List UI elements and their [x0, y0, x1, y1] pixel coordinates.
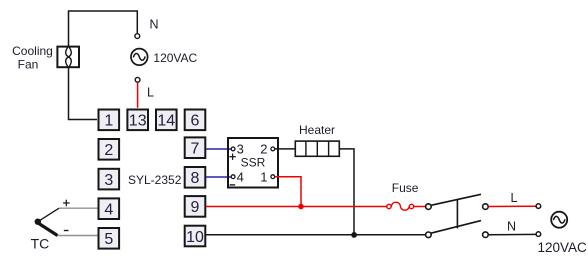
svg-text:4: 4: [237, 169, 244, 184]
svg-text:120VAC: 120VAC: [538, 240, 588, 255]
svg-text:Heater: Heater: [299, 123, 335, 137]
SSR plus mark: [229, 154, 235, 160]
node N circle: [135, 34, 140, 39]
AC source V1 120VAC: [131, 49, 148, 66]
svg-text:9: 9: [191, 199, 200, 216]
junction dot SSR pin1 / terminal 9 (red): [298, 204, 304, 210]
heater R1: [295, 141, 339, 156]
SSR U1: [228, 138, 278, 188]
terminal 8: [185, 167, 206, 188]
wire terminal 10 to switch: [206, 234, 426, 236]
switch S1 pole L: [426, 194, 489, 209]
svg-text:14: 14: [157, 113, 175, 130]
svg-text:Cooling: Cooling: [12, 44, 53, 58]
svg-text:SSR: SSR: [241, 155, 266, 169]
svg-text:120VAC: 120VAC: [153, 51, 197, 65]
svg-text:N: N: [507, 219, 516, 233]
SSR pin 2: [271, 147, 275, 151]
terminal 3: [99, 169, 120, 190]
terminal 13: [127, 110, 148, 131]
svg-text:2: 2: [104, 142, 113, 159]
terminal 9: [185, 196, 206, 217]
SSR pin 3: [231, 147, 235, 151]
wire fuse to switch (red): [414, 206, 426, 208]
thermocouple TC: [35, 208, 59, 235]
node L end circle: [536, 204, 541, 209]
terminal 10: [185, 226, 206, 247]
svg-text:7: 7: [191, 141, 200, 158]
svg-text:N: N: [150, 18, 159, 32]
svg-text:L: L: [511, 191, 518, 205]
terminal 14: [156, 110, 177, 131]
svg-text:4: 4: [104, 202, 113, 219]
svg-text:8: 8: [191, 170, 200, 187]
wire fan top loop to N terminal: [69, 11, 138, 46]
svg-text:13: 13: [129, 113, 147, 130]
wire switch to N end: [488, 233, 536, 235]
label - (TC): [64, 230, 69, 232]
wire TC+ to terminal 4 (gray): [59, 207, 98, 209]
svg-text:3: 3: [104, 172, 113, 189]
label + (TC): [63, 200, 70, 207]
switch S1 pole N: [426, 221, 489, 238]
wire SSR pin 1 to junction (red): [275, 177, 301, 207]
wire heater to N junction: [339, 149, 354, 235]
wire terminal 7 to SSR pin 3 (blue): [206, 148, 231, 150]
svg-text:Fuse: Fuse: [392, 181, 419, 195]
svg-text:SYL-2352: SYL-2352: [128, 173, 182, 187]
svg-text:5: 5: [104, 231, 113, 248]
wire terminal 9 to fuse (red): [206, 206, 387, 208]
fan M1: [57, 46, 79, 69]
svg-text:3: 3: [237, 142, 244, 157]
SSR pin 1: [271, 175, 275, 179]
wire terminal 8 to SSR pin 4 (blue): [206, 176, 231, 178]
terminal 4: [99, 198, 120, 219]
svg-text:TC: TC: [31, 236, 50, 252]
wire SSR pin 2 to heater: [275, 148, 295, 150]
SSR pin 4: [231, 175, 235, 179]
svg-text:1: 1: [260, 169, 267, 184]
svg-text:1: 1: [104, 113, 113, 130]
SSR minus mark: [230, 184, 236, 186]
node L circle: [135, 77, 140, 82]
junction dot heater/N wire: [351, 232, 357, 238]
wire fan bottom to terminal 1: [69, 69, 98, 120]
terminal 1: [99, 110, 120, 131]
wire switch to L end (red): [488, 205, 536, 207]
wire TC- to terminal 5 (gray): [58, 235, 98, 237]
svg-text:2: 2: [260, 142, 267, 157]
terminal 5: [99, 228, 120, 249]
svg-text:L: L: [147, 85, 154, 99]
switch gang link: [456, 200, 458, 229]
terminal 7: [185, 137, 206, 158]
fuse F1: [387, 202, 414, 210]
terminal 2: [99, 139, 120, 160]
svg-text:6: 6: [191, 113, 200, 130]
wire L to terminal 13 (red): [137, 82, 139, 107]
node N end circle: [536, 232, 541, 237]
svg-text:10: 10: [186, 229, 204, 246]
AC source V2 120VAC right: [551, 212, 567, 228]
label Cooling Fan: [12, 44, 53, 72]
svg-text:Fan: Fan: [18, 58, 39, 72]
terminal 6: [185, 110, 206, 131]
